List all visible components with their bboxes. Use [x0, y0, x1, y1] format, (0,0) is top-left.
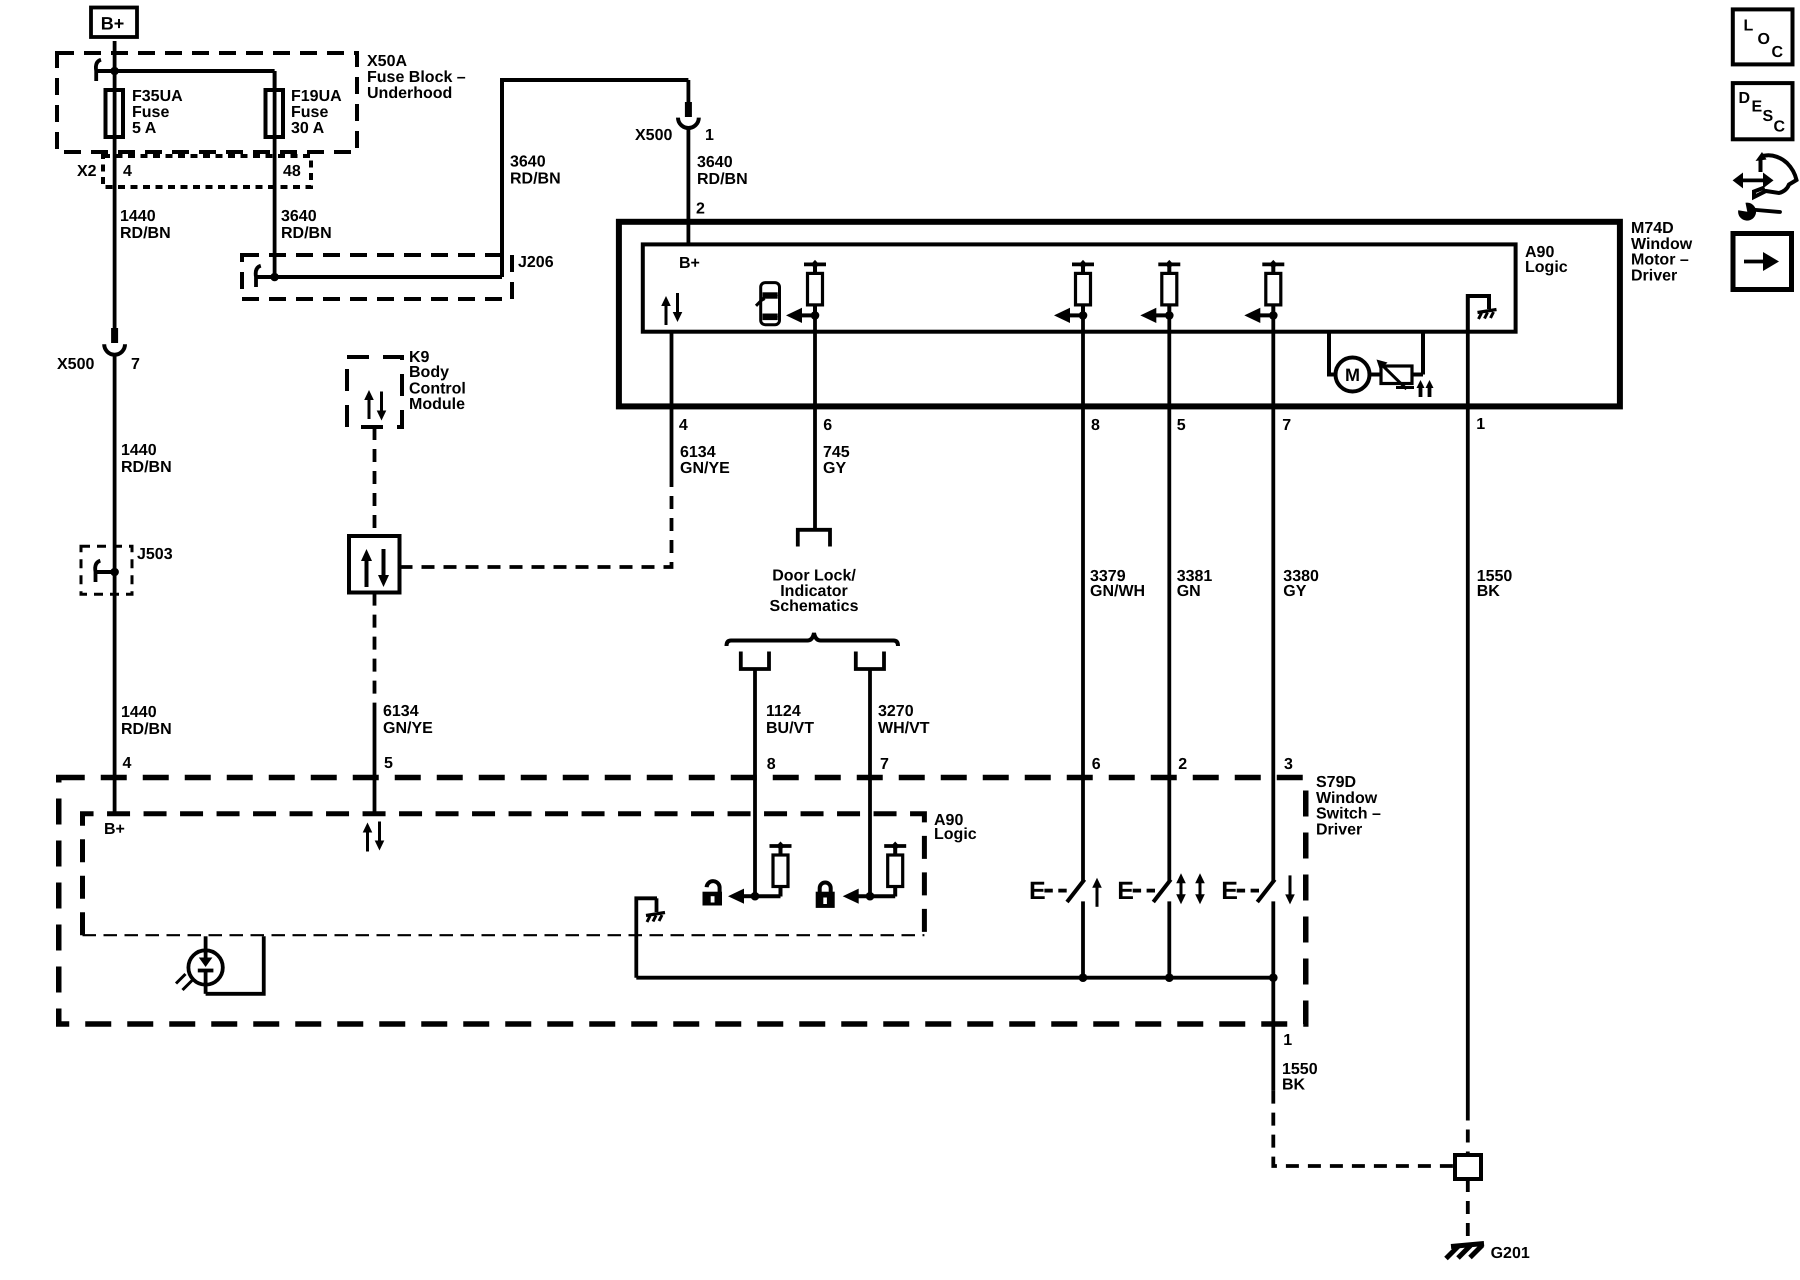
down arrow at window down switch	[1285, 875, 1295, 904]
K9 label	[409, 349, 466, 413]
up arrow at window up switch	[1092, 878, 1102, 907]
svg-text:Window: Window	[1316, 790, 1378, 807]
svg-text:3: 3	[1284, 756, 1293, 773]
switch internal ground	[636, 898, 665, 977]
junction node window express	[1165, 973, 1174, 982]
lock padlock icon	[816, 883, 835, 908]
wire splice to riser	[256, 275, 502, 279]
connector bracket at end of 745 GY	[798, 530, 830, 547]
J206 dashed box	[242, 255, 512, 299]
svg-text:X2: X2	[77, 163, 97, 180]
wire B+ down to fuse block	[113, 41, 117, 90]
wire riser 3640 RD/BN	[502, 80, 688, 277]
wire module pin 6	[813, 315, 817, 528]
svg-text:E: E	[1029, 877, 1046, 905]
svg-text:E: E	[1117, 877, 1134, 905]
svg-text:L: L	[1744, 18, 1754, 35]
wire module pin 8 to switch pin 6	[1081, 315, 1085, 881]
svg-text:Logic: Logic	[934, 826, 977, 843]
A90 logic inner box bottom edge	[83, 934, 925, 936]
svg-text:48: 48	[283, 163, 301, 180]
svg-text:J206: J206	[518, 254, 554, 271]
dashed serial data wire to module pin 4	[400, 477, 672, 567]
junction node pin 5 leg	[1165, 311, 1174, 320]
svg-text:X500: X500	[635, 127, 672, 144]
connector X500 pin 7	[111, 328, 118, 343]
svg-text:BK: BK	[1282, 1077, 1306, 1094]
A90 logic label in switch	[934, 812, 977, 843]
wire label 6134 GN/YE	[383, 703, 433, 737]
LOC hotlink box	[1733, 9, 1793, 64]
ground bus of switch	[636, 976, 1273, 980]
wire label 3381 GN	[1177, 568, 1213, 600]
unlock indicator circuit	[728, 842, 792, 904]
svg-text:4: 4	[123, 163, 132, 180]
window down switch	[1221, 877, 1275, 978]
A90 logic inner box of module	[643, 244, 1516, 331]
svg-text:6134: 6134	[680, 444, 716, 461]
svg-text:1: 1	[1283, 1032, 1292, 1049]
svg-text:RD/BN: RD/BN	[510, 171, 561, 188]
junction node J503	[110, 568, 119, 577]
svg-text:M74D: M74D	[1631, 220, 1674, 237]
svg-text:GN: GN	[1177, 583, 1201, 600]
svg-text:E: E	[1752, 99, 1763, 116]
wire module pin 1 ground lead	[1466, 332, 1470, 1108]
svg-text:Fuse Block –: Fuse Block –	[367, 69, 466, 86]
svg-text:1440: 1440	[120, 208, 156, 225]
splice curl in fuse block	[96, 60, 101, 81]
svg-text:S79D: S79D	[1316, 774, 1356, 791]
double arrows at express switch	[1176, 873, 1186, 904]
svg-text:Body: Body	[409, 364, 449, 381]
svg-text:D: D	[1739, 90, 1751, 107]
splice block	[1455, 1155, 1481, 1179]
svg-text:X50A: X50A	[367, 53, 407, 70]
wire label 1550 BK	[1477, 568, 1513, 600]
svg-text:7: 7	[1282, 417, 1291, 434]
module up/down arrows at pin 4	[661, 296, 671, 325]
dashed wire K9 to serial data box	[373, 427, 377, 536]
svg-text:C: C	[1774, 119, 1786, 136]
svg-text:8: 8	[767, 756, 776, 773]
arrow at pin 7 leg	[1244, 308, 1273, 323]
K9 body control module dashed box	[347, 357, 402, 427]
svg-text:J503: J503	[137, 546, 173, 563]
wire module pin 7 to switch pin 3	[1271, 315, 1275, 881]
dashed wire below serial data box	[373, 593, 377, 703]
svg-text:Door Lock/: Door Lock/	[772, 568, 856, 585]
svg-text:30 A: 30 A	[291, 120, 325, 137]
dashed ground run from switch	[1273, 1091, 1455, 1166]
dashed wire splice to ground	[1466, 1179, 1470, 1241]
splice curl J503	[95, 561, 100, 582]
B+ power symbol box	[91, 8, 137, 38]
svg-text:1: 1	[705, 127, 714, 144]
svg-text:BU/VT: BU/VT	[766, 720, 814, 737]
svg-text:Motor –: Motor –	[1631, 252, 1689, 269]
svg-text:B+: B+	[101, 14, 125, 34]
wire label 3640 RD/BN	[697, 154, 748, 188]
connector bracket wire 1124	[741, 652, 769, 670]
arrow at pin 5 leg	[1140, 308, 1169, 323]
junction node pin 7 leg	[1269, 311, 1278, 320]
svg-text:GY: GY	[1283, 583, 1306, 600]
motor M of window motor	[1329, 332, 1381, 392]
unlock padlock icon	[703, 881, 723, 905]
svg-text:B+: B+	[679, 255, 700, 272]
svg-text:E: E	[1221, 877, 1238, 905]
wire module pin 5 to switch pin 2	[1167, 315, 1171, 881]
fuse F19UA element	[273, 90, 277, 156]
svg-text:G201: G201	[1491, 1245, 1530, 1262]
switch serial arrows at pin 5	[363, 823, 373, 852]
fuse F35UA element	[113, 90, 117, 156]
LED backlight of switch	[176, 936, 264, 994]
ground G201	[1446, 1244, 1484, 1259]
svg-text:B+: B+	[104, 821, 125, 838]
svg-text:6134: 6134	[383, 703, 419, 720]
wire 3640 RD/BN from fuse F19UA	[273, 156, 277, 277]
svg-text:3270: 3270	[878, 703, 914, 720]
window up switch	[1029, 877, 1085, 978]
wire 1440 RD/BN below X500	[113, 354, 117, 814]
forward hotlink box	[1733, 234, 1792, 290]
svg-text:GN/WH: GN/WH	[1090, 583, 1145, 600]
svg-text:Fuse: Fuse	[291, 104, 328, 121]
door lock schematics note	[770, 568, 859, 616]
svg-text:1124: 1124	[766, 703, 801, 720]
wire label 3640 RD/BN riser	[510, 154, 561, 188]
junction node J206	[270, 273, 279, 282]
lock indicator circuit	[843, 842, 907, 904]
svg-text:M: M	[1345, 365, 1360, 385]
svg-text:Module: Module	[409, 396, 465, 413]
svg-text:3640: 3640	[510, 154, 546, 171]
svg-text:8: 8	[1091, 417, 1100, 434]
wire 1440 RD/BN from fuse F35UA	[113, 156, 117, 330]
wire label 1440 RD/BN lower	[121, 704, 172, 738]
wire label 3379 GN/WH	[1090, 568, 1145, 600]
splice curl J206	[256, 266, 261, 287]
wire label 1550 BK	[1282, 1061, 1318, 1094]
resistor sense leg at module pin 7	[1262, 260, 1284, 315]
svg-text:RD/BN: RD/BN	[121, 459, 172, 476]
arrow at pin 8 leg	[1054, 308, 1083, 323]
wire label 745 GY	[823, 444, 850, 477]
X50A fuse block label	[367, 53, 466, 102]
wire branch to second fuse	[96, 69, 274, 73]
svg-text:5: 5	[1177, 417, 1186, 434]
wire label 1440 RD/BN	[121, 442, 172, 476]
svg-text:6: 6	[823, 417, 832, 434]
svg-text:Window: Window	[1631, 236, 1693, 253]
M74D module outer box	[619, 222, 1620, 407]
svg-text:3640: 3640	[697, 154, 733, 171]
svg-text:GN/YE: GN/YE	[680, 460, 730, 477]
A90 logic label	[1525, 244, 1568, 276]
svg-text:Schematics: Schematics	[770, 598, 859, 615]
wire switch pin 1	[1271, 978, 1275, 1091]
brace over door lock connectors	[727, 633, 899, 646]
svg-text:RD/BN: RD/BN	[121, 721, 172, 738]
wire label 3270 WH/VT	[878, 703, 930, 737]
svg-text:GN/YE: GN/YE	[383, 720, 433, 737]
fuse F35UA label	[132, 88, 183, 137]
junction node window down	[1269, 973, 1278, 982]
svg-text:2: 2	[696, 201, 705, 218]
resistor sense leg at module pin 6	[804, 260, 826, 315]
junction node window up	[1079, 973, 1088, 982]
dashed ground run from motor	[1466, 1108, 1470, 1156]
junction node at branch	[110, 67, 119, 76]
svg-text:Switch –: Switch –	[1316, 806, 1381, 823]
svg-text:6: 6	[1092, 756, 1101, 773]
svg-text:1: 1	[1476, 416, 1485, 433]
svg-text:Control: Control	[409, 381, 466, 398]
resistor sense leg at module pin 8	[1072, 260, 1094, 315]
svg-text:4: 4	[679, 417, 688, 434]
S79D switch outer dashed box	[59, 778, 1306, 1025]
svg-text:Driver: Driver	[1631, 268, 1677, 285]
wire label 3380 GY	[1283, 568, 1319, 600]
svg-text:1440: 1440	[121, 442, 157, 459]
svg-text:F19UA: F19UA	[291, 88, 342, 105]
serial data symbol box	[349, 536, 400, 593]
arrow to car icon	[786, 308, 815, 323]
M74D label	[1631, 220, 1693, 285]
svg-text:O: O	[1758, 31, 1770, 48]
wire label 1440 RD/BN	[120, 208, 171, 242]
wire 3270 WH/VT	[868, 669, 872, 896]
connector X500 pin 1	[678, 102, 699, 128]
wire label 6134 GN/YE	[680, 444, 730, 477]
J503 dashed box	[81, 546, 132, 594]
svg-text:RD/BN: RD/BN	[120, 225, 171, 242]
svg-text:F35UA: F35UA	[132, 88, 183, 105]
svg-text:7: 7	[131, 356, 140, 373]
resistor sense leg at module pin 5	[1158, 260, 1180, 315]
svg-text:GY: GY	[823, 460, 846, 477]
svg-text:5: 5	[384, 755, 393, 772]
svg-text:Underhood: Underhood	[367, 85, 452, 102]
window express switch	[1117, 877, 1171, 978]
svg-text:745: 745	[823, 444, 850, 461]
thermistor of motor protection	[1377, 332, 1424, 389]
wire label 3640 RD/BN	[281, 208, 332, 242]
svg-text:C: C	[1772, 44, 1784, 61]
wire module pin 4	[670, 332, 674, 477]
X50A fuse block dashed box	[57, 53, 357, 152]
svg-text:BK: BK	[1477, 583, 1501, 600]
svg-text:S: S	[1763, 108, 1774, 125]
double up arrows at thermistor	[1417, 380, 1434, 397]
svg-text:WH/VT: WH/VT	[878, 720, 930, 737]
diagnostic wrench icon	[1733, 152, 1797, 221]
car icon (vehicle state)	[756, 283, 780, 325]
A90 logic inner dashed box of switch	[83, 814, 925, 935]
svg-text:RD/BN: RD/BN	[697, 171, 748, 188]
DESC hotlink box	[1733, 83, 1793, 139]
svg-text:RD/BN: RD/BN	[281, 225, 332, 242]
svg-text:1440: 1440	[121, 704, 157, 721]
wire into window switch pin 5	[373, 703, 377, 814]
S79D label	[1316, 774, 1381, 839]
svg-text:3640: 3640	[281, 208, 317, 225]
module internal ground	[1468, 296, 1497, 332]
svg-text:4: 4	[123, 755, 132, 772]
svg-text:Logic: Logic	[1525, 259, 1568, 276]
svg-text:Fuse: Fuse	[132, 104, 169, 121]
svg-text:5 A: 5 A	[132, 120, 157, 137]
fuse F19UA label	[291, 88, 342, 137]
svg-text:Driver: Driver	[1316, 822, 1362, 839]
junction node pin 8 leg	[1079, 311, 1088, 320]
wire 3640 RD/BN into module	[687, 127, 691, 244]
svg-text:1550: 1550	[1282, 1061, 1318, 1078]
K9 serial data arrows	[364, 390, 374, 419]
junction node pin 6 leg	[811, 311, 820, 320]
svg-text:2: 2	[1178, 756, 1187, 773]
connector bracket wire 3270	[856, 652, 884, 670]
wire label 1124 BU/VT	[766, 703, 814, 737]
serial data arrows	[361, 549, 372, 587]
svg-text:X500: X500	[57, 356, 94, 373]
svg-text:7: 7	[880, 756, 889, 773]
X2 connector dotted box	[103, 156, 311, 187]
wire 1124 BU/VT	[753, 669, 757, 896]
